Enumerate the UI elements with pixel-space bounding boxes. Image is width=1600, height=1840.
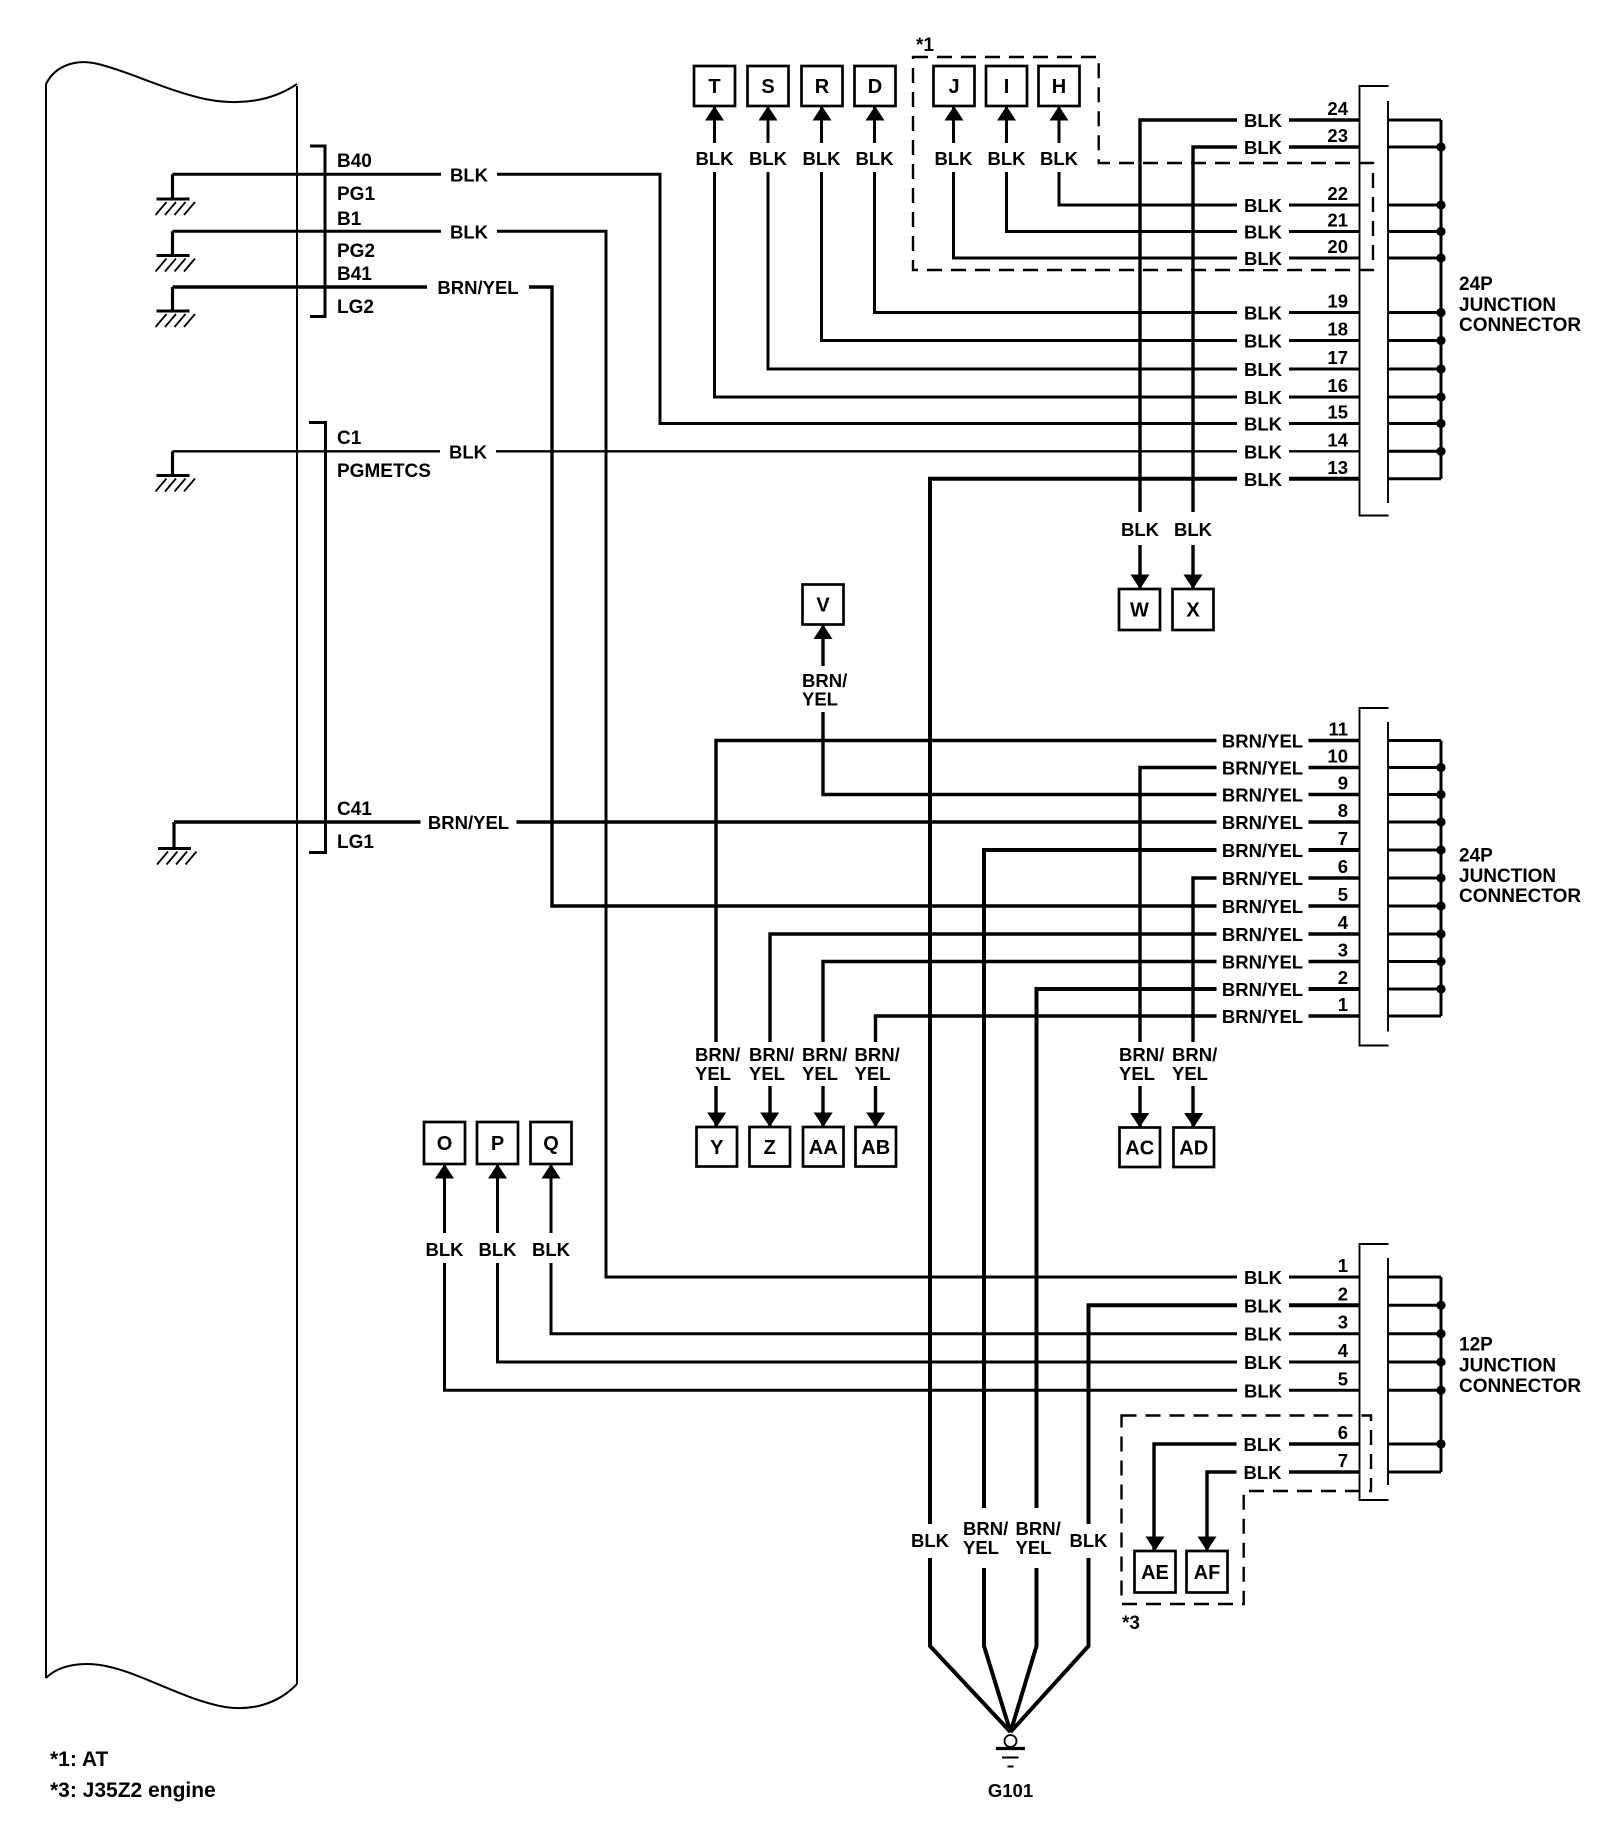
label BLK on 24P row y=423.5 [1237,413,1289,435]
label BRN/YEL on 24P-2 row y=878 [1217,867,1309,889]
svg-text:BLK: BLK [1243,1434,1282,1455]
ground at B41/LG2 [171,287,174,311]
wire 24P pin20 BLK to J [954,106,1360,258]
label BLK on G101 wire from 24P pin13 [908,1524,952,1558]
svg-text:18: 18 [1327,319,1348,340]
wire 12P pin3 BLK to Q [551,1164,1360,1334]
svg-text:22: 22 [1327,183,1348,204]
svg-text:YEL: YEL [963,1537,999,1558]
svg-text:BLK: BLK [1244,1267,1283,1288]
svg-text:H: H [1052,76,1066,98]
label BLK on W/X stem x=1193 [1171,512,1215,545]
svg-text:PG1: PG1 [337,184,375,205]
svg-text:BLK: BLK [1244,1295,1283,1316]
svg-text:BLK: BLK [911,1530,950,1551]
svg-text:C1: C1 [337,428,362,449]
svg-text:BLK: BLK [1244,303,1283,324]
wire 24P pin22 BLK to H [1059,106,1360,205]
ground at B40/PG1 [171,174,174,199]
label BLK on 24P row y=340.5 [1237,330,1289,352]
label BLK on 24P row y=397 [1237,386,1289,408]
svg-text:*3: J35Z2 engine: *3: J35Z2 engine [50,1779,216,1802]
svg-text:24P: 24P [1459,846,1493,867]
svg-text:5: 5 [1338,1368,1348,1389]
label BLK on stem x=1006.5 [985,143,1029,172]
terminal bracket C1..LG1 [309,423,326,853]
svg-text:PGMETCS: PGMETCS [337,461,431,482]
svg-text:YEL: YEL [1172,1063,1208,1084]
svg-text:19: 19 [1327,291,1348,312]
wire B1/PG2 BLK to 12P pin1 [173,231,1360,1277]
arrow into S [759,106,778,121]
svg-text:BLK: BLK [1244,1352,1283,1373]
svg-text:AF: AF [1194,1562,1221,1584]
svg-text:2: 2 [1338,967,1348,988]
svg-text:B1: B1 [337,209,362,230]
label BLK on 12P row y=1472 [1237,1461,1289,1483]
svg-text:BLK: BLK [1069,1530,1108,1551]
connector box X [1173,589,1214,630]
svg-text:7: 7 [1338,828,1348,849]
svg-text:BRN/: BRN/ [749,1044,794,1065]
wire 12P pin7 BLK to AF [1207,1472,1360,1551]
label BRN/YEL on AB stem [853,1042,902,1086]
svg-text:20: 20 [1327,236,1348,257]
connector box Z [750,1127,791,1167]
connector box P [477,1122,518,1164]
svg-text:JUNCTION: JUNCTION [1459,295,1556,316]
svg-text:BRN/YEL: BRN/YEL [437,277,518,298]
connector box Q [531,1122,572,1164]
svg-text:BRN/YEL: BRN/YEL [1222,924,1303,945]
terminal bracket B40..LG2 [310,146,325,317]
ground at C1/PGMETCS [171,451,174,475]
arrow into X [1184,575,1203,590]
svg-text:BLK: BLK [1244,441,1283,462]
ECM/PCM block outline (torn edges) [45,84,47,1678]
arrow into D [866,106,885,121]
wire 24P pin19 BLK to D [875,106,1360,313]
svg-text:YEL: YEL [802,1063,838,1084]
svg-text:BRN/YEL: BRN/YEL [1222,952,1303,973]
arrow into AE [1146,1537,1165,1552]
svg-text:4: 4 [1338,1340,1349,1361]
wire 24P pin18 BLK to R [822,106,1360,341]
wire 24P-2 pin1 BRN/YEL to AB [876,1016,1360,1127]
svg-text:D: D [868,76,882,98]
label BLK on 12P row y=1305.3 [1237,1294,1289,1316]
24P junction connector (top) body and bus [1359,86,1361,516]
svg-text:BRN/YEL: BRN/YEL [1222,840,1303,861]
label BRN/YEL on 24P-2 row y=906 [1217,895,1309,917]
label BRN/YEL on 24P-2 row y=794.5 [1217,784,1309,806]
svg-text:AD: AD [1179,1137,1208,1159]
svg-text:BRN/YEL: BRN/YEL [1222,896,1303,917]
label BLK on 24P row y=478.8 [1237,468,1289,490]
svg-text:BRN/: BRN/ [802,1044,847,1065]
arrow into R [813,106,832,121]
wire 24P-2 pin2 BRN/YEL to G101 [1011,989,1360,1732]
label BRN/YEL on 24P-2 row y=850 [1217,839,1309,861]
ground at B1/PG2 [171,231,174,255]
wire 12P pin5 BLK to O [445,1164,1360,1390]
svg-text:BLK: BLK [478,1239,517,1260]
svg-text:O: O [437,1133,453,1155]
svg-text:BLK: BLK [450,221,489,242]
arrow into Q [542,1164,561,1179]
svg-text:*3: *3 [1122,1613,1140,1634]
label BLK on stem x=874.5 [853,143,897,172]
wire 12P pin6 BLK to AE [1154,1444,1360,1551]
label BLK on 12P row y=1277 [1237,1266,1289,1288]
svg-text:BLK: BLK [1244,414,1283,435]
label BRN/YEL on AA stem [800,1042,849,1086]
label BLK on 12P row y=1333.7 [1237,1323,1289,1345]
svg-text:P: P [491,1133,504,1155]
svg-text:V: V [816,595,830,617]
arrow into Y [707,1113,726,1128]
label BLK on stem x=953.5 [932,143,976,172]
svg-text:PG2: PG2 [337,241,375,262]
svg-text:AC: AC [1125,1137,1154,1159]
svg-text:24P: 24P [1459,274,1493,295]
label BRN/YEL on 24P-2 row y=822 [1217,811,1309,833]
svg-text:7: 7 [1338,1450,1348,1471]
wire 24P-2 pin3 BRN/YEL to AA [823,962,1360,1128]
svg-text:24: 24 [1327,98,1348,119]
svg-text:*1: AT: *1: AT [50,1748,109,1771]
svg-text:15: 15 [1327,402,1348,423]
wire 24P-2 pin6 BRN/YEL to AD [1193,878,1360,1128]
svg-text:BRN/YEL: BRN/YEL [1222,785,1303,806]
svg-text:BLK: BLK [1244,1380,1283,1401]
connector box Y [697,1127,738,1167]
svg-text:BLK: BLK [855,148,894,169]
svg-text:T: T [708,76,720,98]
svg-text:BRN/: BRN/ [963,1518,1008,1539]
svg-text:21: 21 [1327,210,1348,231]
label BRN/YEL on AD stem [1170,1042,1219,1086]
svg-text:Y: Y [710,1137,724,1159]
svg-text:16: 16 [1327,375,1348,396]
svg-text:B40: B40 [337,151,372,172]
svg-text:17: 17 [1327,347,1348,368]
wire 24P pin21 BLK to I [1007,106,1360,232]
svg-text:AE: AE [1141,1562,1169,1584]
svg-text:BLK: BLK [1174,519,1213,540]
label BRN/YEL on Z stem [747,1042,796,1086]
wire C41/LG1 BRN/YEL to 24P-2 pin8 [174,820,1360,823]
label BLK on stem x=1059 [1037,143,1081,172]
dashed box *3 (J35Z2 engine option) [1122,1416,1372,1605]
label BRN/YEL on C41 wire [421,811,517,833]
label BLK on G101 wire from 12P pin2 [1066,1524,1110,1558]
svg-text:C41: C41 [337,799,372,820]
label BRN/YEL on G101 wire from 24P-2 pin7 [961,1508,1009,1568]
label BRN/YEL on 24P-2 row y=989 [1217,978,1309,1000]
label BLK on 24P row y=312.5 [1237,302,1289,324]
label BLK on stem x=768 [746,143,790,172]
svg-text:BLK: BLK [1244,195,1283,216]
connector box I [986,66,1027,106]
wire 24P pin13 BLK to G101 [930,479,1360,1732]
svg-text:LG1: LG1 [337,832,374,853]
svg-text:AA: AA [809,1137,838,1159]
svg-text:BLK: BLK [987,148,1026,169]
svg-text:BLK: BLK [1244,359,1283,380]
label BLK on 12P pin7 wire [1237,1461,1289,1483]
label BLK on 24P row y=258 [1237,247,1289,269]
svg-text:YEL: YEL [1016,1537,1052,1558]
arrow into AD [1184,1113,1203,1128]
arrow into AB [866,1113,885,1128]
label BLK on stem x=821.5 [800,143,844,172]
svg-text:BLK: BLK [425,1239,464,1260]
label BRN/YEL on 24P-2 row y=740.5 [1217,730,1309,752]
label BLK on B40 wire [441,163,497,185]
connector box S [748,66,789,106]
svg-text:BLK: BLK [802,148,841,169]
svg-text:3: 3 [1338,1312,1348,1333]
svg-text:B41: B41 [337,264,372,285]
arrow into W [1131,575,1150,590]
label BLK on O/P/Q stem x=497.5 [476,1233,520,1263]
svg-text:BRN/YEL: BRN/YEL [1222,868,1303,889]
connector box AA [803,1127,844,1167]
svg-text:BLK: BLK [1243,1462,1282,1483]
arrow into T [705,106,724,121]
wire B40/PG1 BLK to 24P pin15 [173,174,1360,423]
svg-text:BLK: BLK [1121,519,1160,540]
svg-text:BRN/: BRN/ [1016,1518,1061,1539]
connector box AB [856,1127,897,1167]
svg-text:BLK: BLK [695,148,734,169]
svg-text:1: 1 [1338,1255,1348,1276]
12P junction connector body and bus [1359,1244,1361,1500]
label BLK on B1 wire [441,220,497,242]
svg-text:AB: AB [861,1137,890,1159]
wire 24P pin23 BLK to X [1193,147,1360,589]
wire 24P-2 pin4 BRN/YEL to Z [770,934,1360,1127]
connector box H [1039,66,1080,106]
24P junction connector (middle) body and bus [1359,708,1361,1046]
label BLK on 24P row y=120 [1237,109,1289,131]
wire 12P pin4 BLK to P [498,1164,1360,1362]
label BLK on stem x=714.5 [693,143,737,172]
svg-text:S: S [761,76,774,98]
svg-text:YEL: YEL [802,689,838,710]
svg-text:8: 8 [1338,800,1348,821]
svg-text:CONNECTOR: CONNECTOR [1459,315,1581,336]
svg-text:R: R [815,76,830,98]
label BLK on O/P/Q stem x=444.5 [423,1233,467,1263]
label BLK on 24P row y=451.3 [1237,440,1289,462]
svg-text:JUNCTION: JUNCTION [1459,1356,1556,1377]
wire 24P pin17 BLK to S [768,106,1360,369]
svg-text:12P: 12P [1459,1335,1493,1356]
svg-text:LG2: LG2 [337,297,374,318]
wire 24P-2 pin9 BRN/YEL to V [823,625,1360,795]
connector box D [855,66,896,106]
svg-text:14: 14 [1327,429,1348,450]
svg-text:W: W [1130,600,1149,622]
label BLK on 24P row y=369 [1237,358,1289,380]
svg-text:YEL: YEL [1119,1063,1155,1084]
arrow into J [945,106,964,121]
svg-text:BLK: BLK [450,164,489,185]
arrow into I [997,106,1016,121]
svg-text:BLK: BLK [1244,387,1283,408]
svg-text:CONNECTOR: CONNECTOR [1459,1376,1581,1397]
svg-text:9: 9 [1338,773,1348,794]
svg-text:1: 1 [1338,994,1348,1015]
svg-text:BLK: BLK [449,441,488,462]
svg-text:10: 10 [1327,746,1348,767]
svg-text:I: I [1004,76,1010,98]
connector box AC [1120,1128,1161,1168]
dashed box *1 (AT option) [913,57,1373,270]
arrow into AC [1130,1113,1149,1128]
ground at C41/LG1 [172,822,175,849]
svg-text:YEL: YEL [695,1063,731,1084]
svg-text:BLK: BLK [1244,469,1283,490]
arrow into Z [760,1113,779,1128]
svg-text:BLK: BLK [1244,137,1283,158]
label BRN/YEL on G101 wire from 24P-2 pin2 [1012,1508,1062,1568]
svg-text:13: 13 [1327,457,1348,478]
svg-text:BLK: BLK [1244,1324,1283,1345]
svg-text:JUNCTION: JUNCTION [1459,866,1556,887]
wire B41/LG2 BRN/YEL to 24P-2 pin5 [173,287,1360,906]
label BRN/YEL on 24P-2 row y=1016 [1217,1005,1309,1027]
label BLK on 12P pin6 wire [1237,1433,1289,1455]
svg-text:BLK: BLK [1244,110,1283,131]
svg-text:BRN/YEL: BRN/YEL [428,812,509,833]
G101 ground symbol [1005,1735,1017,1747]
label BLK on 12P row y=1362 [1237,1351,1289,1373]
label BRN/YEL on 24P-2 row y=767.5 [1217,757,1309,779]
connector box AE [1135,1551,1176,1593]
label BRN/YEL on V stem [800,666,849,712]
svg-text:Q: Q [543,1133,559,1155]
svg-text:BRN/YEL: BRN/YEL [1222,731,1303,752]
svg-text:11: 11 [1328,719,1348,740]
arrow into H [1050,106,1069,121]
svg-text:BRN/YEL: BRN/YEL [1222,758,1303,779]
label BLK on 24P row y=231.5 [1237,221,1289,243]
wire 24P-2 pin7 BRN/YEL to G101 [984,850,1360,1732]
label BLK on 12P row y=1444 [1237,1433,1289,1455]
svg-text:BLK: BLK [532,1239,571,1260]
svg-text:Z: Z [764,1137,776,1159]
svg-text:6: 6 [1338,856,1348,877]
label BRN/YEL on 24P-2 row y=934 [1217,923,1309,945]
label BLK on 24P row y=147 [1237,136,1289,158]
arrow into P [488,1164,507,1179]
svg-text:BRN/YEL: BRN/YEL [1222,979,1303,1000]
svg-text:YEL: YEL [855,1063,891,1084]
connector box AD [1174,1128,1215,1168]
svg-text:2: 2 [1338,1283,1348,1304]
svg-text:BLK: BLK [1244,222,1283,243]
arrow into AF [1198,1537,1217,1552]
svg-text:X: X [1186,600,1200,622]
label BRN/YEL on 24P-2 row y=961.5 [1217,951,1309,973]
arrow into AA [814,1113,833,1128]
svg-text:BRN/: BRN/ [1172,1044,1217,1065]
wire C1/PGMETCS BLK to 24P pin14 [173,450,1360,452]
connector box AF [1187,1551,1228,1593]
connector box O [424,1122,465,1164]
arrow into O [435,1164,454,1179]
svg-text:BLK: BLK [1244,331,1283,352]
svg-text:BLK: BLK [934,148,973,169]
svg-text:23: 23 [1327,125,1348,146]
svg-text:BLK: BLK [749,148,788,169]
label BLK on C1 wire [440,440,496,462]
svg-text:BRN/: BRN/ [695,1044,740,1065]
label BLK on 12P row y=1390.3 [1237,1379,1289,1401]
svg-text:CONNECTOR: CONNECTOR [1459,886,1581,907]
wire 24P pin16 BLK to T [715,106,1360,397]
svg-text:J: J [948,76,959,98]
svg-text:BLK: BLK [1244,248,1283,269]
svg-text:YEL: YEL [749,1063,785,1084]
arrow into V [814,625,833,640]
wire 24P pin24 BLK to W [1140,120,1360,589]
svg-text:BRN/YEL: BRN/YEL [1222,812,1303,833]
label BRN/YEL on Y stem [693,1042,742,1086]
svg-text:3: 3 [1338,940,1348,961]
svg-text:4: 4 [1338,912,1349,933]
svg-text:6: 6 [1338,1422,1348,1443]
svg-text:BRN/YEL: BRN/YEL [1222,1006,1303,1027]
connector box J [934,66,975,106]
connector box W [1119,589,1160,630]
label BLK on 24P row y=205 [1237,194,1289,216]
label BLK on W/X stem x=1140 [1118,512,1162,545]
connector box V [803,585,844,625]
svg-text:*1: *1 [916,35,934,56]
wire 12P pin2 BLK to G101 [1011,1305,1360,1732]
label BLK on O/P/Q stem x=551 [529,1233,573,1263]
wire 24P-2 pin10 BRN/YEL to AC [1140,768,1360,1128]
label BRN/YEL on B41 wire [427,276,529,298]
svg-text:G101: G101 [988,1780,1033,1801]
svg-text:BRN/: BRN/ [855,1044,900,1065]
svg-text:5: 5 [1338,884,1348,905]
label BRN/YEL on AC stem [1117,1042,1166,1086]
svg-text:BLK: BLK [1040,148,1079,169]
svg-text:BRN/: BRN/ [1119,1044,1164,1065]
wire 24P-2 pin11 BRN/YEL to Y [716,741,1360,1128]
connector box R [802,66,843,106]
connector box T [694,66,735,106]
